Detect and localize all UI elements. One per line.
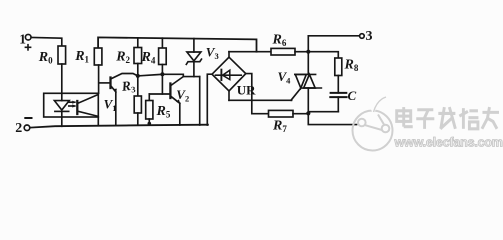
wire <box>61 117 63 126</box>
svg-text:R3: R3 <box>120 78 136 96</box>
transistor V1 <box>99 82 110 84</box>
wire <box>98 65 100 93</box>
node <box>148 122 152 126</box>
wire <box>337 76 339 93</box>
resistor R5 <box>146 101 153 120</box>
triac V4 <box>307 52 309 75</box>
top rail <box>98 37 256 51</box>
terminal 3 <box>308 36 359 52</box>
plus sign <box>25 46 30 48</box>
svg-text:R0: R0 <box>38 50 53 66</box>
svg-text:V3: V3 <box>206 44 219 61</box>
wire <box>148 119 150 125</box>
svg-text:R5: R5 <box>156 104 171 120</box>
svg-text:V2: V2 <box>176 87 189 104</box>
svg-text:3: 3 <box>366 29 373 44</box>
resistor R7 <box>252 100 269 113</box>
svg-text:R2: R2 <box>115 50 130 66</box>
svg-text:www.elecfans.com: www.elecfans.com <box>394 136 503 150</box>
wire <box>97 117 99 125</box>
wire node B to V2 collector <box>162 74 199 76</box>
wire <box>31 38 61 47</box>
svg-text:R8: R8 <box>344 58 359 74</box>
node <box>306 50 310 54</box>
resistor R2 <box>137 38 139 48</box>
optocoupler box <box>44 93 99 117</box>
phototransistor <box>76 101 78 114</box>
wire R5 top / V2 base <box>149 93 169 95</box>
svg-text:C: C <box>348 88 357 103</box>
wire bridge top <box>228 52 230 58</box>
node <box>306 111 310 115</box>
LED diode <box>61 93 63 100</box>
resistor R8 <box>335 58 342 76</box>
wire node A to node B <box>138 74 163 76</box>
wire <box>179 103 181 125</box>
resistor R4 <box>161 38 163 48</box>
triac gate <box>291 88 301 100</box>
resistor R1 <box>94 48 102 65</box>
wire bridge left <box>207 74 212 125</box>
transistor V2 <box>169 84 171 99</box>
resistor R6 <box>271 48 295 55</box>
wire <box>115 92 117 125</box>
wire <box>161 65 163 95</box>
svg-text:R7: R7 <box>272 119 287 135</box>
node A <box>136 74 140 78</box>
watermark chinese text <box>397 107 499 129</box>
resistor R0 <box>58 46 66 64</box>
wire to R8 <box>308 52 338 58</box>
wire <box>199 77 201 125</box>
svg-text:2: 2 <box>15 121 22 136</box>
svg-text:R6: R6 <box>272 33 287 49</box>
svg-text:R4: R4 <box>141 50 156 66</box>
wire <box>137 113 139 125</box>
wire <box>137 64 139 97</box>
opto arrows <box>69 101 75 103</box>
capacitor C <box>331 92 347 94</box>
svg-text:V1: V1 <box>104 97 117 114</box>
wire <box>295 51 308 53</box>
zener V3 <box>193 39 195 52</box>
wire bridge bottom <box>228 91 230 100</box>
wire <box>308 111 338 113</box>
terminal 2 <box>24 125 30 131</box>
wire gate <box>229 99 292 101</box>
svg-text:UR: UR <box>237 82 256 97</box>
svg-text:V4: V4 <box>278 69 292 86</box>
svg-text:R1: R1 <box>74 49 89 65</box>
svg-text:1: 1 <box>19 31 26 46</box>
terminal 1 <box>25 34 31 40</box>
bottom rail <box>30 125 208 128</box>
wire tail <box>308 113 356 124</box>
wire mid top <box>229 51 271 53</box>
wire <box>61 64 63 93</box>
watermark logo <box>353 97 393 151</box>
node B <box>160 72 164 76</box>
bridge rectifier UR <box>212 57 246 91</box>
resistor R3 <box>134 96 141 113</box>
minus sign <box>25 117 31 119</box>
wire bridge right <box>246 74 252 101</box>
